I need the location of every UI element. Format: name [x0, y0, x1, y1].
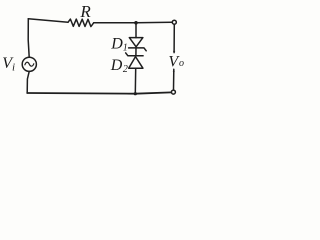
diode D1 triangle (pointing down)	[129, 38, 143, 47]
wire right upper segment with arrowhead	[173, 24, 175, 52]
wire bottom right segment	[135, 92, 171, 93]
wire top-middle to junction	[94, 22, 136, 24]
node junction dot bottom	[134, 92, 137, 95]
terminal bottom-right open circle	[171, 90, 175, 94]
svg-text:D2: D2	[110, 57, 128, 75]
svg-text:Vi: Vi	[2, 55, 15, 73]
AC source V_i circle	[22, 57, 36, 71]
wire left vertical lower (source to bottom corner)	[27, 71, 29, 93]
diode D2 triangle (pointing up)	[129, 57, 143, 69]
svg-text:Vo: Vo	[168, 53, 184, 70]
wire top-left horizontal	[28, 19, 68, 22]
svg-text:D1: D1	[110, 36, 128, 54]
wire bottom left segment	[27, 92, 135, 95]
wire right lower segment with arrowhead	[173, 69, 175, 90]
wire diode branch bottom	[134, 68, 136, 94]
wire diode branch top	[135, 23, 137, 38]
wire link between D1 and D2	[135, 48, 137, 56]
diode D2 zener cathode bar with left wing	[126, 53, 143, 56]
resistor R body	[68, 19, 94, 27]
node junction dot top	[134, 21, 138, 25]
diode D1 zener cathode bar with right wing	[129, 48, 147, 51]
svg-text:R: R	[79, 2, 91, 21]
AC source sine squiggle	[25, 62, 34, 66]
wire left vertical upper (top corner to source)	[28, 19, 29, 57]
terminal top-right open circle	[172, 20, 176, 24]
wire junction to top-right terminal	[136, 21, 172, 24]
